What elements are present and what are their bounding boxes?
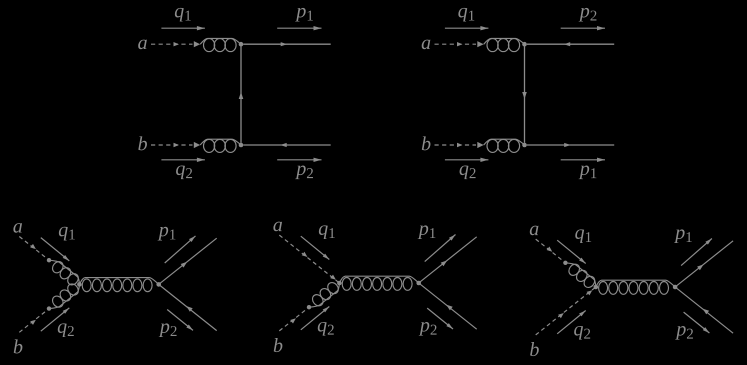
momentum arrow q2 [41,308,70,331]
vertex dot [239,42,244,47]
momentum arrow q2 [557,311,586,334]
arrowhead on top-right line [564,42,571,46]
label q1 [319,225,328,239]
label b [422,136,431,150]
left vertex dot [77,282,82,287]
dot at gluon start (a side) [563,261,567,265]
label q1 [458,8,467,22]
arrowhead on a line [174,42,180,46]
momentum arrow p bottom [561,159,605,161]
label p1 [418,225,429,239]
outgoing antiquark line p2 (lower right) [677,288,734,333]
label a [530,226,539,236]
momentum arrow q2 [445,159,489,161]
momentum arrow p1 [681,239,712,266]
label b [138,136,147,150]
arrowhead on p2 antiquark line (toward vertex) [186,306,193,312]
outgoing quark line p1 (upper right) [677,241,734,286]
label q2 [176,165,185,179]
ghost line a (dashed, incoming upper-left) [279,235,338,282]
outgoing top-right line [243,43,330,45]
arrowhead on vertical line [239,92,244,99]
arrowhead at gluon start (a side) [194,41,200,47]
momentum arrow p bottom [277,159,321,161]
momentum arrow p1 [165,236,196,263]
ghost line a (dashed, incoming upper-left) [536,239,564,261]
dot at gluon start (a side) [47,258,51,262]
vertex dot [239,143,244,148]
internal vertical line [524,47,526,143]
ghost line a (dashed) [151,43,193,45]
right vertex dot [156,282,161,287]
label a [422,40,431,50]
label q2 [574,326,583,340]
arrowhead on b line [174,143,180,147]
arrowhead on bottom-right line [564,143,571,147]
momentum arrow p2 [167,310,193,331]
right vertex dot [673,285,678,290]
gluon coil (a side) [204,39,215,52]
outgoing quark line p1 (upper right) [160,238,217,283]
momentum arrow q2 [161,159,205,161]
arrowhead at gluon start (a side) [477,41,483,47]
label q1 [575,229,584,243]
label b [530,342,539,356]
label q1 [175,8,184,22]
momentum arrow q1 [445,27,489,29]
ghost line b (dashed, incoming lower-left) [279,309,307,331]
momentum arrow p2 [684,312,710,333]
label q1 [59,227,68,241]
label p2 [419,322,430,336]
vertex dot [522,42,527,47]
arrowhead on a line (near vertex) [330,275,336,280]
label p1 [158,227,169,241]
label q2 [460,165,469,179]
momentum arrow q2 [301,307,330,330]
label p2 [159,323,170,337]
arrowhead at gluon start (b side) [194,142,200,148]
arrowhead on a line (mid) [302,252,308,257]
left vertex dot [594,285,599,290]
label p2 [675,326,686,340]
momentum arrow p1 [425,235,456,262]
label p1 (bottom right) [579,165,590,179]
label a [138,40,147,50]
arrowhead on b line [290,318,296,323]
label p1 [674,229,685,243]
gluon coil on b line [310,293,325,308]
gluon coil (b side) [487,139,498,152]
arrowhead at gluon start (b side) [477,142,483,148]
right vertex dot [416,281,421,286]
arrowhead on a line [30,244,36,249]
vertex dot [522,143,527,148]
arrowhead on p1 quark line [697,264,704,270]
horizontal gluon propagator [599,282,608,295]
label b [14,339,23,353]
arrowhead on a line [457,42,463,46]
gluon coil on a line [567,262,582,277]
arrowhead on bottom-right line [280,143,287,147]
label a [13,223,22,233]
ghost line b (dashed) [435,144,477,146]
horizontal gluon propagator [342,278,351,291]
ghost line b (dashed, incoming lower-left) [19,310,47,332]
ghost line b (dashed, incoming lower-left) [536,288,595,335]
dot at gluon start (b side) [307,305,311,309]
left vertex dot [337,281,342,286]
gluon coil (a side) [487,39,498,52]
arrowhead on b line (mid) [558,313,564,318]
momentum arrow q1 [161,27,205,29]
label a [273,222,282,232]
label b [274,338,283,352]
gluon coil on a line [50,260,65,275]
arrowhead on a line [547,247,553,252]
outgoing antiquark line p2 (lower right) [420,284,477,329]
arrowhead on b line (near vertex) [587,290,593,295]
label p2 (bottom right) [295,165,306,179]
label q2 [58,323,67,337]
momentum arrow p top [277,27,321,29]
label p2 (top right) [579,8,590,22]
arrowhead on vertical line [522,92,527,99]
momentum arrow p top [561,27,605,29]
outgoing bottom-right line [243,144,330,146]
outgoing top-right line [527,43,614,45]
ghost line a (dashed, incoming upper-left) [19,237,47,259]
arrowhead on p2 antiquark line (toward vertex) [703,309,710,315]
outgoing bottom-right line [527,144,614,146]
arrowhead on b line [457,143,463,147]
label q2 [318,322,327,336]
arrowhead on p1 quark line [441,260,448,266]
ghost line a (dashed) [435,43,477,45]
label p1 (top right) [295,8,306,22]
momentum arrow q1 [41,238,70,261]
dot at gluon start (b side) [47,306,51,310]
arrowhead on p1 quark line [181,262,188,268]
arrowhead on top-right line [281,42,288,46]
arrowhead on b line [30,320,36,325]
momentum arrow p2 [427,308,453,329]
momentum arrow q1 [557,240,586,263]
ghost line b (dashed) [151,144,193,146]
arrowhead on p2 antiquark line (toward vertex) [446,305,453,311]
internal vertical line [240,47,242,143]
momentum arrow q1 [301,236,330,259]
gluon coil on b line [50,294,65,309]
outgoing antiquark line p2 (lower right) [160,286,217,331]
horizontal gluon propagator [82,279,91,292]
outgoing quark line p1 (upper right) [420,237,477,282]
gluon coil (b side) [204,139,215,152]
